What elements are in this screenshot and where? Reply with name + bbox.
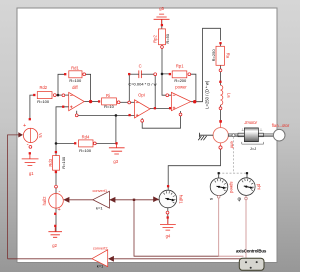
svg-text:Rp1: Rp1: [176, 64, 184, 69]
svg-text:C=0.004 * D / w: C=0.004 * D / w: [128, 82, 156, 87]
svg-text:g1: g1: [29, 171, 34, 176]
svg-text:g4: g4: [166, 234, 171, 239]
svg-text:Rd4: Rd4: [82, 135, 90, 140]
svg-text:Vs: Vs: [38, 133, 43, 138]
svg-text:Ri: Ri: [106, 93, 110, 98]
svg-text:R=100: R=100: [69, 78, 82, 83]
svg-text:R=100: R=100: [37, 99, 50, 104]
svg-text:R=200: R=200: [174, 78, 187, 83]
svg-text:R=10: R=10: [104, 104, 114, 109]
svg-text:power: power: [175, 84, 187, 89]
svg-text:phi: phi: [256, 184, 261, 190]
svg-text:convert2: convert2: [93, 247, 108, 251]
svg-text:+: +: [58, 207, 61, 213]
svg-text:convert1: convert1: [93, 189, 108, 193]
svg-text:R=100: R=100: [61, 156, 66, 169]
svg-text:axisControlBus: axisControlBus: [236, 248, 267, 253]
svg-text:OpI: OpI: [138, 93, 145, 98]
svg-text:Jmotor: Jmotor: [243, 120, 257, 125]
svg-text:speed: speed: [229, 181, 234, 193]
svg-text:g2: g2: [52, 243, 57, 248]
svg-text:+: +: [23, 123, 26, 129]
svg-text:hall1: hall1: [178, 195, 183, 205]
svg-text:La: La: [227, 93, 232, 98]
svg-text:diff: diff: [72, 85, 78, 90]
svg-text:R=250: R=250: [211, 49, 216, 62]
svg-text:-: -: [27, 142, 29, 148]
svg-text:-: -: [59, 189, 61, 195]
svg-text:L=250 / (D * w): L=250 / (D * w): [205, 80, 210, 109]
svg-text:J=J: J=J: [250, 146, 256, 151]
svg-text:Ra: Ra: [225, 53, 230, 59]
svg-text:k=1: k=1: [96, 206, 103, 211]
svg-text:w: w: [210, 196, 213, 201]
svg-text:Rd2: Rd2: [39, 85, 47, 90]
svg-text:flan...otor: flan...otor: [272, 123, 290, 128]
svg-text:hall2: hall2: [42, 196, 47, 206]
svg-text:Rp2: Rp2: [153, 34, 158, 42]
svg-text:R=50: R=50: [165, 33, 170, 43]
svg-text:Rd3: Rd3: [48, 158, 53, 166]
svg-text:k=1: k=1: [97, 263, 104, 268]
svg-text:emf: emf: [229, 141, 234, 149]
svg-text:Rd1: Rd1: [71, 66, 79, 71]
svg-text:g5: g5: [159, 6, 164, 11]
svg-text:R=100: R=100: [79, 148, 92, 153]
svg-text:C: C: [139, 64, 142, 69]
svg-text:g3: g3: [113, 159, 118, 164]
